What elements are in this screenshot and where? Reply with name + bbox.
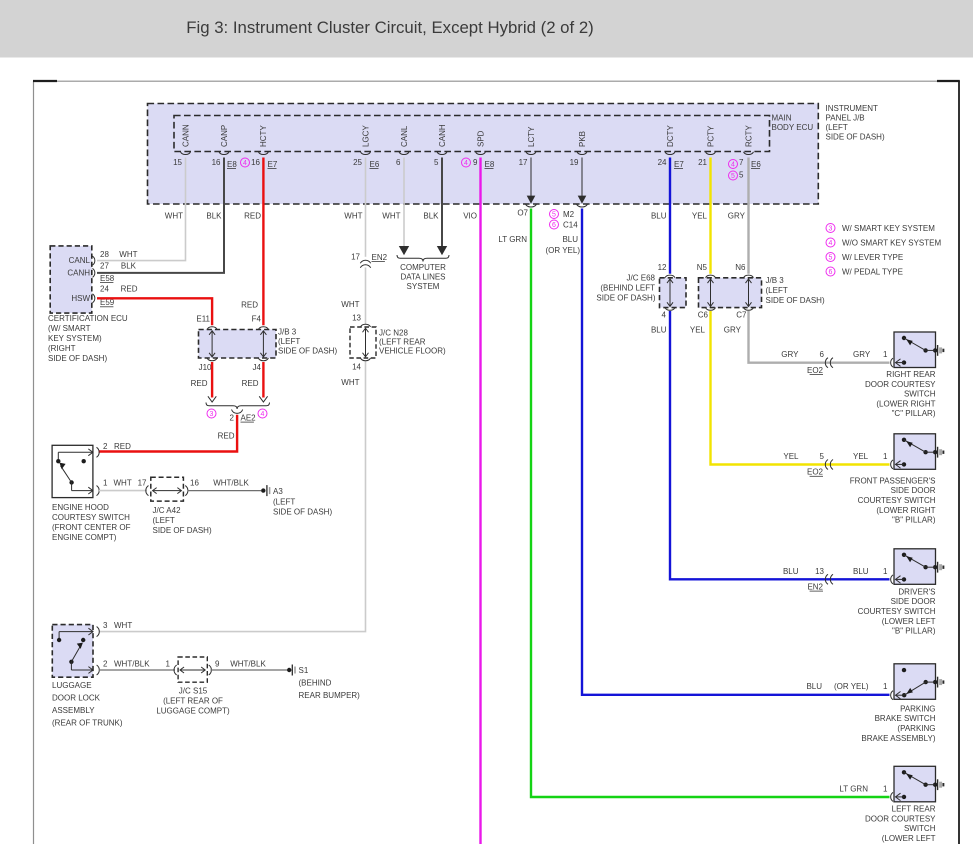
wire WHT: engine hood pin1 to J/C A42 (99, 490, 147, 492)
svg-text:(BEHIND: (BEHIND (299, 679, 332, 688)
svg-text:(LOWER LEFT: (LOWER LEFT (882, 834, 936, 843)
pin 1 of front passenger's side door courtesy switch (902, 462, 906, 466)
wire HCTY RED: ECU pin to J/B3 pin F4 (262, 158, 264, 326)
svg-text:4: 4 (261, 411, 265, 418)
option (3) circled (207, 409, 216, 418)
wire RED from J4 down to splice brace (262, 362, 264, 398)
main body ECU connector row box (174, 116, 770, 152)
svg-text:2: 2 (103, 442, 108, 451)
svg-text:19: 19 (570, 158, 579, 167)
luggage pin 3 (88, 628, 93, 635)
svg-text:WHT: WHT (344, 212, 362, 221)
svg-text:24: 24 (100, 284, 109, 293)
wire DCTY BLU upper segment (669, 158, 671, 274)
svg-text:CANL: CANL (69, 256, 91, 265)
svg-text:SIDE OF DASH): SIDE OF DASH) (826, 133, 885, 142)
legend (5) W/ LEVER TYPE (826, 253, 835, 262)
svg-text:5: 5 (739, 171, 744, 180)
svg-text:4: 4 (829, 240, 833, 247)
wire CANN WHT: ECU pin15 to certification pin28 (97, 158, 186, 261)
svg-text:5: 5 (552, 212, 556, 219)
svg-text:WHT/BLK: WHT/BLK (114, 660, 150, 669)
svg-text:BLU: BLU (853, 567, 869, 576)
svg-text:BLK: BLK (121, 262, 137, 271)
svg-text:GRY: GRY (853, 350, 871, 359)
wire CANH BLK to computer data lines (441, 158, 443, 248)
ground of right rear door courtesy switch (937, 345, 939, 356)
svg-text:4: 4 (464, 160, 468, 167)
svg-text:9: 9 (473, 158, 478, 167)
svg-text:(LEFT: (LEFT (273, 498, 295, 507)
pin 1 of left rear door courtesy switch (902, 795, 906, 799)
svg-text:RED: RED (242, 379, 259, 388)
svg-text:5: 5 (820, 452, 825, 461)
legend (4) W/O SMART KEY SYSTEM (826, 238, 835, 247)
luggage switch internal contacts (59, 631, 93, 633)
svg-text:5: 5 (434, 158, 439, 167)
svg-text:24: 24 (658, 158, 667, 167)
svg-text:(LEFT: (LEFT (766, 286, 788, 295)
svg-text:COURTESY SWITCH: COURTESY SWITCH (52, 513, 130, 522)
svg-text:SIDE OF DASH): SIDE OF DASH) (766, 296, 825, 305)
wire LGCY WHT vertical (365, 158, 367, 257)
svg-text:BLU: BLU (651, 212, 667, 221)
svg-text:1: 1 (103, 478, 108, 487)
svg-text:1: 1 (883, 682, 888, 691)
switch front passenger's side door courtesy switch (894, 434, 936, 470)
certification ECU pin 28 (93, 256, 95, 265)
svg-text:W/ PEDAL TYPE: W/ PEDAL TYPE (842, 268, 903, 277)
svg-text:J/C S15: J/C S15 (179, 687, 208, 696)
svg-text:RED: RED (191, 379, 208, 388)
svg-text:SIDE OF DASH): SIDE OF DASH) (48, 354, 107, 363)
arrow CANL into computer data lines (399, 246, 409, 255)
svg-text:SIDE DOOR: SIDE DOOR (891, 597, 936, 606)
svg-text:EN2: EN2 (372, 253, 388, 262)
svg-text:N5: N5 (697, 263, 708, 272)
ground of driver's side door courtesy switch (937, 562, 939, 573)
svg-text:A3: A3 (273, 487, 283, 496)
svg-text:J/C E68: J/C E68 (627, 274, 656, 283)
svg-text:1: 1 (883, 785, 888, 794)
svg-text:CANH: CANH (67, 269, 90, 278)
svg-text:DATA LINES: DATA LINES (400, 273, 445, 282)
engine hood switch internal contacts (58, 451, 93, 453)
svg-text:"C" PILLAR): "C" PILLAR) (892, 409, 936, 418)
svg-text:DCTY: DCTY (666, 125, 675, 147)
svg-text:(PARKING: (PARKING (897, 724, 935, 733)
svg-text:4: 4 (731, 162, 735, 169)
connector options (5) M2 / (6) C14 (550, 210, 559, 219)
wire RED from J10 down to splice brace (211, 362, 213, 398)
svg-text:WHT: WHT (341, 300, 359, 309)
svg-text:12: 12 (658, 263, 667, 272)
J/B3 internal path E11-J10 (211, 331, 213, 357)
svg-text:WHT/BLK: WHT/BLK (213, 478, 249, 487)
wire WHT/BLK: luggage pin2 to J/C S15 (99, 669, 175, 671)
svg-text:C14: C14 (563, 221, 578, 230)
svg-text:16: 16 (251, 158, 260, 167)
engine hood switch pin 2 (88, 449, 93, 456)
ECU internal output arrow LCTY (530, 158, 532, 197)
svg-text:RED: RED (244, 212, 261, 221)
certification ECU pin 27 (93, 268, 95, 277)
svg-text:"B" PILLAR): "B" PILLAR) (892, 627, 936, 636)
svg-text:4: 4 (662, 311, 667, 320)
svg-text:LEFT REAR: LEFT REAR (892, 805, 936, 814)
svg-text:3: 3 (103, 621, 108, 630)
wire PKB BLU down to parking brake switch (582, 209, 890, 695)
svg-text:WHT/BLK: WHT/BLK (230, 660, 266, 669)
svg-text:E59: E59 (100, 298, 115, 307)
svg-text:E11: E11 (196, 315, 210, 324)
svg-text:DOOR LOCK: DOOR LOCK (52, 694, 101, 703)
svg-text:PCTY: PCTY (706, 125, 715, 147)
svg-text:SIDE OF DASH): SIDE OF DASH) (596, 294, 655, 303)
svg-text:WHT: WHT (114, 621, 132, 630)
svg-text:14: 14 (352, 363, 361, 372)
svg-text:YEL: YEL (783, 452, 799, 461)
switch driver's side door courtesy switch (894, 549, 936, 585)
svg-text:WHT: WHT (382, 212, 400, 221)
J/B3 pin J4 (258, 358, 268, 361)
pin 1 of driver's side door courtesy switch (902, 577, 906, 581)
svg-text:E8: E8 (485, 160, 495, 169)
svg-text:(LOWER RIGHT: (LOWER RIGHT (876, 399, 935, 408)
svg-text:5: 5 (731, 173, 735, 180)
svg-text:COMPUTER: COMPUTER (400, 263, 446, 272)
svg-text:Fig 3: Instrument Cluster Circ: Fig 3: Instrument Cluster Circuit, Excep… (186, 18, 594, 37)
arrow CANH into computer data lines (437, 246, 447, 255)
brace computer data lines system (397, 255, 449, 262)
svg-text:DRIVER'S: DRIVER'S (898, 587, 935, 596)
certification ECU box (50, 246, 92, 313)
svg-text:EO2: EO2 (807, 366, 824, 375)
wire HSW RED: certification pin24 to J/B3 pin E11 (97, 298, 212, 325)
svg-text:SWITCH: SWITCH (904, 390, 936, 399)
svg-text:2: 2 (230, 414, 235, 423)
svg-text:O7: O7 (517, 209, 528, 218)
svg-text:F4: F4 (252, 315, 262, 324)
svg-text:7: 7 (739, 158, 744, 167)
svg-text:HSW: HSW (71, 294, 90, 303)
svg-text:15: 15 (173, 158, 182, 167)
svg-text:17: 17 (519, 158, 528, 167)
svg-text:W/O SMART KEY SYSTEM: W/O SMART KEY SYSTEM (842, 239, 941, 248)
svg-text:VIO: VIO (463, 212, 477, 221)
svg-text:DOOR COURTESY: DOOR COURTESY (865, 814, 936, 823)
svg-text:28: 28 (100, 250, 109, 259)
svg-text:E8: E8 (227, 160, 237, 169)
svg-text:LGCY: LGCY (361, 125, 370, 147)
svg-text:J/C N28: J/C N28 (379, 329, 408, 338)
svg-text:5: 5 (829, 255, 833, 262)
ground of left rear door courtesy switch (937, 779, 939, 790)
svg-text:GRY: GRY (781, 350, 799, 359)
wire PCTY YEL lower segment to front passenger switch (711, 311, 890, 465)
arrow into brace from J10 wire (208, 396, 216, 402)
svg-text:CANP: CANP (220, 125, 229, 147)
svg-text:1: 1 (883, 567, 888, 576)
connector bump below brace (232, 410, 243, 414)
svg-text:1: 1 (883, 452, 888, 461)
svg-text:E7: E7 (268, 160, 278, 169)
wire PCTY YEL upper segment (709, 158, 711, 274)
svg-text:CANH: CANH (438, 124, 447, 147)
svg-text:SPD: SPD (476, 130, 485, 147)
wire RCTY GRY upper segment (747, 158, 749, 274)
ECU internal output arrow PKB (581, 158, 583, 197)
pin 1 of parking brake switch (896, 694, 905, 696)
svg-text:RIGHT REAR: RIGHT REAR (886, 370, 935, 379)
svg-text:17: 17 (351, 253, 360, 262)
diagram frame border (33, 81, 35, 844)
svg-text:(LEFT REAR: (LEFT REAR (379, 338, 426, 347)
svg-text:LCTY: LCTY (527, 126, 536, 147)
svg-text:ENGINE HOOD: ENGINE HOOD (52, 503, 109, 512)
svg-text:LUGGAGE COMPT): LUGGAGE COMPT) (156, 707, 230, 716)
J/B3 pin E11 (207, 327, 217, 330)
main body ECU box (instrument panel J/B) (148, 104, 819, 205)
engine hood courtesy switch box (52, 445, 93, 497)
wire CANL WHT to computer data lines (403, 158, 405, 248)
wire CANP BLK: ECU pin16 to certification pin27 (97, 158, 224, 273)
svg-text:9: 9 (215, 660, 220, 669)
svg-text:HCTY: HCTY (259, 125, 268, 147)
svg-text:6: 6 (396, 158, 401, 167)
svg-text:PANEL J/B: PANEL J/B (826, 114, 865, 123)
svg-text:C7: C7 (736, 311, 747, 320)
brace joining the two RED wires (node AE2) (206, 403, 270, 410)
svg-text:16: 16 (190, 478, 199, 487)
svg-text:2: 2 (103, 660, 108, 669)
wire WHT/BLK: J/C A42 to splice A3 (188, 490, 262, 492)
svg-text:(LEFT: (LEFT (153, 516, 175, 525)
svg-text:RCTY: RCTY (744, 125, 753, 147)
svg-text:EN2: EN2 (807, 583, 823, 592)
svg-text:CERTIFICATION ECU: CERTIFICATION ECU (48, 314, 128, 323)
svg-text:17: 17 (138, 478, 147, 487)
svg-text:27: 27 (100, 262, 109, 271)
svg-text:6: 6 (552, 222, 556, 229)
svg-text:(LEFT REAR OF: (LEFT REAR OF (163, 697, 223, 706)
switch parking brake switch (894, 664, 936, 700)
svg-text:3: 3 (210, 411, 214, 418)
legend (3) W/ SMART KEY SYSTEM (826, 224, 835, 233)
svg-text:W/ SMART KEY SYSTEM: W/ SMART KEY SYSTEM (842, 224, 935, 233)
svg-text:BLU: BLU (651, 326, 667, 335)
svg-text:6: 6 (829, 269, 833, 276)
svg-text:(RIGHT: (RIGHT (48, 344, 76, 353)
wire WHT/BLK: J/C S15 to splice S1 (211, 669, 288, 671)
certification ECU pin 24 (93, 294, 95, 303)
svg-text:LT GRN: LT GRN (839, 785, 868, 794)
svg-text:VEHICLE FLOOR): VEHICLE FLOOR) (379, 347, 446, 356)
svg-text:(BEHIND LEFT: (BEHIND LEFT (600, 284, 655, 293)
svg-text:(OR YEL): (OR YEL) (545, 246, 580, 255)
svg-text:J/C A42: J/C A42 (153, 506, 182, 515)
svg-text:M2: M2 (563, 210, 575, 219)
svg-text:FRONT PASSENGER'S: FRONT PASSENGER'S (850, 476, 936, 485)
wire LCTY LT GRN down to left rear door switch (531, 209, 890, 798)
svg-text:AE2: AE2 (241, 414, 257, 423)
svg-text:YEL: YEL (692, 212, 708, 221)
svg-text:KEY SYSTEM): KEY SYSTEM) (48, 334, 102, 343)
splice S1 (behind rear bumper) (287, 668, 291, 672)
svg-text:(LOWER RIGHT: (LOWER RIGHT (876, 506, 935, 515)
svg-text:J/B 3: J/B 3 (278, 328, 297, 337)
svg-text:WHT: WHT (341, 378, 359, 387)
svg-text:DOOR COURTESY: DOOR COURTESY (865, 380, 936, 389)
svg-text:CANL: CANL (400, 125, 409, 147)
option (4) circled (258, 409, 267, 418)
svg-text:LT GRN: LT GRN (498, 235, 527, 244)
wire SPD VIO vertical to bottom edge (479, 158, 481, 844)
luggage pin 2 (88, 667, 93, 674)
svg-text:16: 16 (212, 158, 221, 167)
arrow into brace from J4 wire (259, 396, 267, 402)
wire RED from AE2 to engine hood switch pin 2 (99, 415, 238, 452)
title bar (0, 0, 973, 58)
svg-text:J4: J4 (253, 363, 262, 372)
svg-text:RED: RED (121, 284, 138, 293)
svg-text:BRAKE SWITCH: BRAKE SWITCH (875, 714, 936, 723)
svg-text:LUGGAGE: LUGGAGE (52, 681, 92, 690)
svg-text:"B" PILLAR): "B" PILLAR) (892, 516, 936, 525)
J/B3 internal path F4-J4 (262, 331, 264, 357)
svg-text:ASSEMBLY: ASSEMBLY (52, 706, 95, 715)
svg-text:S1: S1 (299, 666, 309, 675)
svg-text:BLK: BLK (206, 212, 222, 221)
svg-text:(LEFT: (LEFT (826, 123, 848, 132)
svg-text:SIDE OF DASH): SIDE OF DASH) (278, 347, 337, 356)
svg-text:21: 21 (698, 158, 707, 167)
svg-text:W/ LEVER TYPE: W/ LEVER TYPE (842, 253, 903, 262)
pin 1 of right rear door courtesy switch (902, 360, 906, 364)
svg-text:WHT: WHT (114, 478, 132, 487)
svg-text:GRY: GRY (728, 212, 746, 221)
svg-text:COURTESY SWITCH: COURTESY SWITCH (858, 496, 936, 505)
switch left rear door courtesy switch (894, 766, 936, 802)
svg-text:RED: RED (114, 442, 131, 451)
svg-text:SIDE DOOR: SIDE DOOR (891, 486, 936, 495)
svg-text:REAR BUMPER): REAR BUMPER) (299, 691, 361, 700)
svg-text:E7: E7 (674, 160, 684, 169)
svg-text:RED: RED (241, 301, 258, 310)
svg-text:SIDE OF DASH): SIDE OF DASH) (273, 508, 332, 517)
svg-text:CANN: CANN (181, 124, 190, 147)
J/B3 pin F4 (258, 327, 268, 330)
svg-text:INSTRUMENT: INSTRUMENT (826, 104, 879, 113)
svg-text:13: 13 (815, 567, 824, 576)
svg-text:BLU: BLU (806, 682, 822, 691)
svg-text:4: 4 (243, 160, 247, 167)
svg-text:GRY: GRY (724, 326, 742, 335)
svg-text:(OR YEL): (OR YEL) (834, 682, 869, 691)
ground of parking brake switch (937, 677, 939, 688)
svg-text:COURTESY SWITCH: COURTESY SWITCH (858, 607, 936, 616)
svg-text:(FRONT CENTER OF: (FRONT CENTER OF (52, 523, 131, 532)
svg-text:YEL: YEL (690, 326, 706, 335)
svg-text:E58: E58 (100, 274, 115, 283)
svg-text:13: 13 (352, 314, 361, 323)
svg-text:YEL: YEL (853, 452, 869, 461)
svg-text:BLK: BLK (423, 212, 439, 221)
J/B3 pin J10 (207, 358, 217, 361)
wire RCTY GRY lower segment to right rear switch (749, 311, 890, 363)
svg-text:BRAKE ASSEMBLY): BRAKE ASSEMBLY) (861, 734, 935, 743)
svg-text:BODY ECU: BODY ECU (772, 123, 814, 132)
svg-text:(W/ SMART: (W/ SMART (48, 324, 91, 333)
svg-text:3: 3 (829, 226, 833, 233)
svg-text:EO2: EO2 (807, 468, 824, 477)
svg-text:E6: E6 (751, 160, 761, 169)
svg-text:(LEFT: (LEFT (278, 337, 300, 346)
svg-text:J10: J10 (199, 363, 212, 372)
engine hood switch pin 1 (88, 487, 93, 494)
svg-text:SYSTEM: SYSTEM (407, 282, 440, 291)
svg-text:J/B 3: J/B 3 (766, 276, 785, 285)
junction block J/B 3 (left of dash) (199, 330, 277, 359)
svg-text:E6: E6 (370, 160, 380, 169)
svg-text:MAIN: MAIN (772, 114, 792, 123)
legend (6) W/ PEDAL TYPE (826, 267, 835, 276)
svg-text:WHT: WHT (165, 212, 183, 221)
svg-text:1: 1 (166, 660, 171, 669)
svg-text:N6: N6 (735, 263, 746, 272)
svg-text:WHT: WHT (119, 250, 137, 259)
svg-text:C6: C6 (698, 311, 709, 320)
switch right rear door courtesy switch (894, 332, 936, 368)
svg-text:25: 25 (353, 158, 362, 167)
svg-text:(REAR OF TRUNK): (REAR OF TRUNK) (52, 719, 123, 728)
svg-text:6: 6 (820, 350, 825, 359)
ground of front passenger's side door courtesy switch (937, 447, 939, 458)
luggage door lock assembly box (52, 625, 93, 678)
svg-text:BLU: BLU (562, 235, 578, 244)
wire DCTY BLU lower segment to driver's door switch (670, 311, 890, 579)
svg-text:(LOWER LEFT: (LOWER LEFT (882, 617, 936, 626)
svg-text:BLU: BLU (783, 567, 799, 576)
svg-text:ENGINE COMPT): ENGINE COMPT) (52, 533, 117, 542)
splice A3 (261, 488, 265, 492)
svg-text:PKB: PKB (578, 131, 587, 147)
svg-text:SIDE OF DASH): SIDE OF DASH) (153, 526, 212, 535)
svg-text:RED: RED (218, 432, 235, 441)
svg-text:SWITCH: SWITCH (904, 824, 936, 833)
svg-text:1: 1 (883, 350, 888, 359)
svg-text:PARKING: PARKING (900, 704, 935, 713)
